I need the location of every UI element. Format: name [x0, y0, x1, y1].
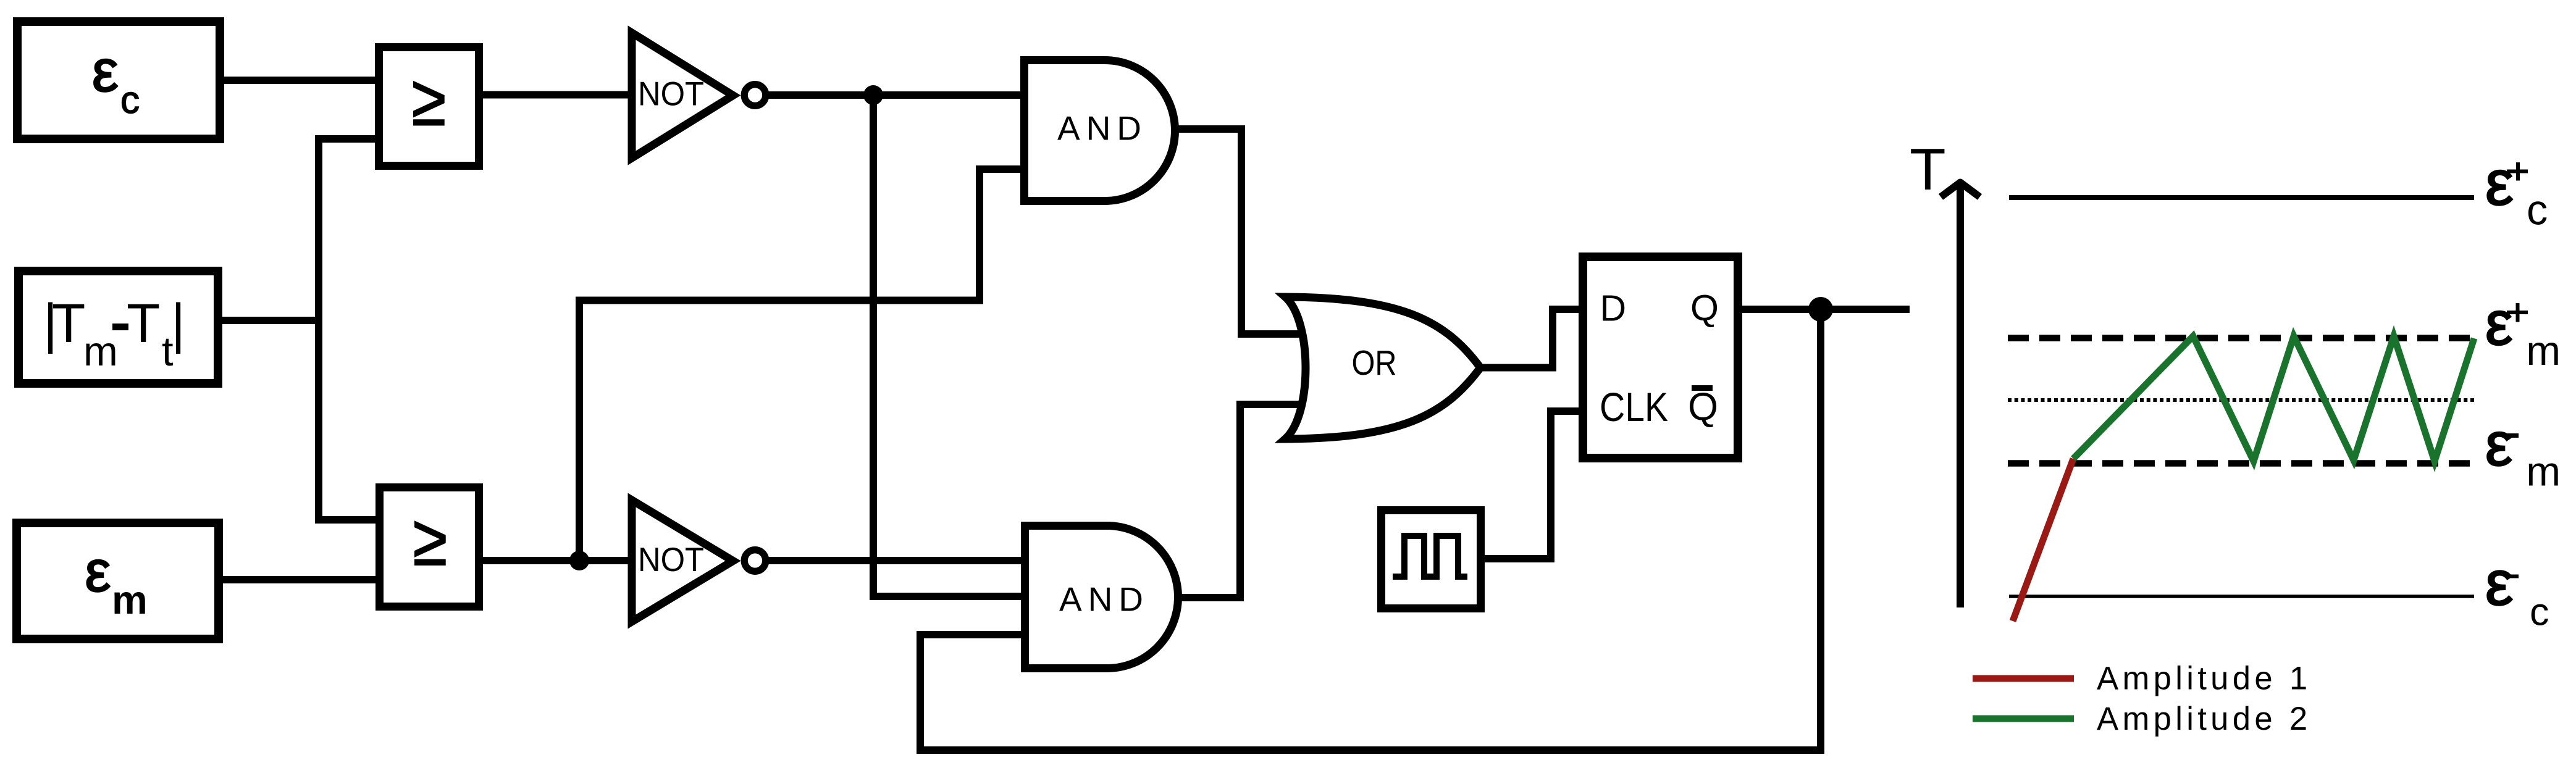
wire comparator 1 output to NOT gate 1 — [483, 91, 636, 99]
clock source box — [1382, 511, 1481, 609]
svg-text:T: T — [127, 292, 160, 354]
threshold line epsilon-m (dashed) — [2008, 460, 2477, 467]
svg-text:D: D — [1600, 288, 1627, 329]
threshold line epsilon-c (solid) — [2009, 595, 2474, 598]
legend amplitude 2 green sample line — [1973, 716, 2074, 722]
wire vertical bus to comparator 1 input 2 and comparator 2 input 1 — [319, 139, 375, 520]
NOT gate 2 triangle — [632, 500, 733, 622]
svg-text:T: T — [52, 292, 85, 354]
D flip-flop box — [1583, 257, 1738, 458]
svg-text:ε: ε — [2485, 148, 2514, 219]
wire AND gate 2 output to OR gate input 2 — [1177, 404, 1303, 598]
svg-text:ε: ε — [2485, 410, 2512, 478]
svg-text:Amplitude 2: Amplitude 2 — [2097, 701, 2312, 737]
comparator box 2 (greater-equal) — [380, 488, 479, 607]
svg-text:ε: ε — [85, 539, 111, 604]
wire NOT gate 2 output to AND gate 2 input 1 — [766, 557, 1028, 564]
wire flip-flop Q output stub — [1740, 306, 1910, 313]
svg-text:NOT: NOT — [638, 541, 704, 578]
wire OR gate output to flip-flop D input — [1479, 309, 1585, 368]
svg-text:NOT: NOT — [638, 75, 704, 113]
midline (dotted) — [2008, 398, 2477, 402]
svg-text:c: c — [120, 79, 140, 122]
svg-text:ε: ε — [2485, 289, 2513, 358]
clock square-wave symbol — [1393, 536, 1467, 577]
amplitude 2 green zigzag curve — [2073, 336, 2474, 462]
legend amplitude 1 red sample line — [1973, 675, 2074, 682]
AND gate 2 body — [1025, 526, 1178, 669]
junction dot at NOT2 input — [569, 551, 589, 570]
NOT gate 1 bubble — [744, 85, 766, 106]
wire clock source to flip-flop CLK input — [1485, 411, 1585, 559]
svg-text:OR: OR — [1352, 343, 1397, 383]
OR gate body — [1285, 297, 1480, 439]
input box epsilon_c — [17, 22, 220, 139]
svg-text:ε: ε — [2485, 548, 2513, 619]
svg-text:≥: ≥ — [412, 60, 446, 141]
svg-text:Q: Q — [1690, 288, 1719, 328]
comparator box 1 (greater-equal) — [379, 48, 479, 166]
wire epsilon_c box to comparator 1 — [224, 77, 375, 84]
amplitude 1 red curve — [2013, 459, 2073, 621]
svg-text:m: m — [112, 577, 148, 622]
axis vertical line with arrow — [1957, 182, 1964, 607]
svg-text:T: T — [1910, 136, 1946, 202]
wire Tm-Tt box to vertical bus — [222, 317, 319, 324]
svg-text:AND: AND — [1059, 580, 1147, 619]
wire node at NOT2 input up to AND gate 1 input 2 — [579, 169, 1028, 561]
input box epsilon_m — [17, 523, 219, 639]
junction dot at Q output — [1808, 297, 1833, 322]
svg-text:Amplitude 1: Amplitude 1 — [2097, 661, 2312, 697]
input box |Tm-Tt| — [19, 271, 218, 383]
wire AND gate 1 output to OR gate input 1 — [1173, 129, 1303, 334]
wire node junction to AND gate 2 input 2 — [873, 95, 1028, 596]
svg-text:m: m — [2526, 328, 2561, 374]
wire epsilon_m box to comparator 2 — [223, 576, 375, 583]
axis arrowhead — [1941, 183, 1980, 198]
wire feedback from Q down and around to AND gate 2 input 3 — [920, 309, 1821, 750]
threshold line epsilon+m (dashed) — [2008, 335, 2477, 341]
svg-text:m: m — [2526, 449, 2561, 495]
svg-text:AND: AND — [1057, 109, 1146, 148]
svg-text:Q: Q — [1688, 385, 1718, 428]
wire comparator 2 output to NOT gate 2 — [483, 557, 636, 564]
NOT gate 2 bubble — [744, 550, 766, 572]
svg-text:|: | — [171, 292, 185, 354]
svg-text:CLK: CLK — [1600, 384, 1668, 430]
svg-text:≥: ≥ — [413, 499, 447, 580]
wire NOT gate 1 output to AND gate 1 input 1 — [766, 91, 1028, 99]
svg-text:m: m — [83, 328, 118, 375]
svg-text:c: c — [2530, 591, 2549, 634]
svg-text:c: c — [2527, 186, 2548, 234]
svg-text:ε: ε — [92, 38, 119, 104]
NOT gate 1 triangle — [632, 33, 733, 158]
threshold line epsilon+c (solid) — [2009, 195, 2474, 200]
junction dot at NOT1 output — [863, 85, 883, 105]
AND gate 1 body — [1025, 61, 1175, 201]
